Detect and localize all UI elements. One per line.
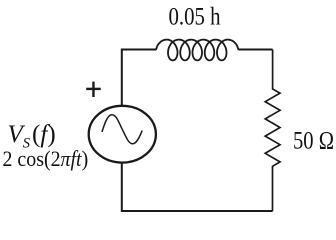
svg-text:50 Ω: 50 Ω bbox=[293, 128, 334, 155]
svg-text:2 cos(2πft): 2 cos(2πft) bbox=[3, 146, 89, 171]
svg-text:0.05 h: 0.05 h bbox=[169, 4, 221, 31]
